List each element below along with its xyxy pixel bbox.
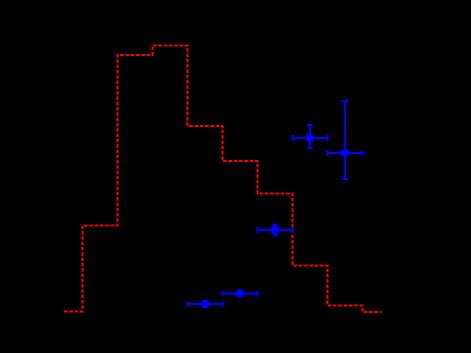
data point 5 marker: [341, 149, 350, 158]
data point 2 marker: [236, 289, 245, 298]
data point 3 marker: [271, 226, 280, 235]
data point 4 error bars: [293, 125, 328, 148]
data point 3 error bars: [258, 225, 293, 236]
data point 2 x-error bar: [223, 291, 258, 297]
histogram red dashed step line: [64, 46, 381, 313]
data point 4 marker: [306, 134, 315, 143]
data point 1 marker: [201, 300, 210, 309]
data point 1 x-error bar: [188, 301, 223, 307]
data point 5 error bars: [328, 101, 363, 179]
